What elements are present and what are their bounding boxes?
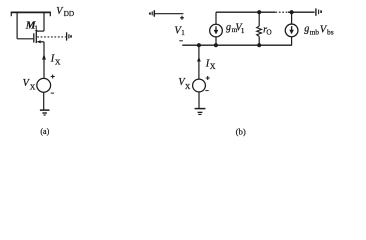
svg-text:X: X bbox=[55, 57, 61, 66]
svg-text:(a): (a) bbox=[40, 127, 49, 136]
svg-text:mb: mb bbox=[310, 28, 320, 36]
svg-text:1: 1 bbox=[181, 28, 185, 37]
svg-text:g: g bbox=[304, 23, 309, 34]
svg-text:X: X bbox=[210, 62, 216, 71]
svg-text:1: 1 bbox=[241, 26, 245, 35]
svg-text:DD: DD bbox=[64, 9, 75, 18]
svg-text:1: 1 bbox=[34, 24, 38, 33]
svg-text:g: g bbox=[226, 22, 231, 33]
svg-text:X: X bbox=[30, 83, 36, 92]
svg-text:bs: bs bbox=[327, 28, 334, 37]
svg-text:(b): (b) bbox=[236, 126, 246, 136]
svg-text:X: X bbox=[185, 82, 191, 91]
svg-text:O: O bbox=[266, 28, 271, 37]
